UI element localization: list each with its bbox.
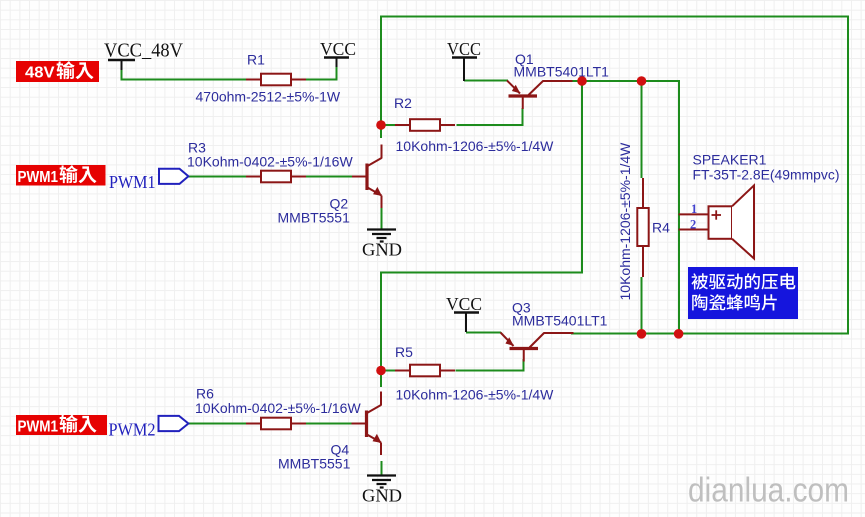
svg-text:10Kohm-0402-±5%-1/16W: 10Kohm-0402-±5%-1/16W bbox=[195, 400, 361, 416]
junction dot 5 bbox=[637, 329, 647, 339]
svg-text:GND: GND bbox=[362, 486, 402, 506]
svg-text:MMBT5401LT1: MMBT5401LT1 bbox=[512, 313, 608, 329]
resistor R6 bbox=[246, 423, 261, 425]
callout box 48V输入 bbox=[16, 61, 99, 82]
transistor Q1 (PNP) bbox=[507, 81, 520, 94]
wire: PWM2 port to R6 bbox=[188, 423, 247, 425]
wire: VCC to Q3 emitter bbox=[466, 332, 501, 334]
ground symbol GND (Q4) bbox=[367, 474, 396, 476]
resistor R1 bbox=[246, 79, 261, 81]
wire: R3 to Q2 base bbox=[304, 176, 353, 178]
junction dot 6 bbox=[674, 329, 684, 339]
svg-text:10Kohm-0402-±5%-1/16W: 10Kohm-0402-±5%-1/16W bbox=[187, 154, 353, 170]
transistor Q4 (NPN) bbox=[352, 423, 367, 425]
resistor R2 bbox=[395, 124, 410, 126]
callout box PWM1输入 (top) bbox=[16, 165, 106, 186]
wire: vertical from top rail down to node at R2 row bbox=[380, 17, 382, 127]
svg-text:MMBT5551: MMBT5551 bbox=[278, 210, 351, 226]
svg-text:GND: GND bbox=[362, 240, 402, 260]
resistor R5 bbox=[395, 370, 410, 372]
svg-text:PWM1: PWM1 bbox=[109, 172, 156, 192]
transistor Q2 (NPN) bbox=[352, 176, 367, 178]
wire: node at R2 down to Q2 collector bbox=[380, 125, 382, 138]
wire: bottom rail from Q3 collector to right rail bbox=[571, 333, 849, 335]
junction dot 4 bbox=[376, 366, 386, 376]
wire: Q4 emitter to GND bbox=[381, 461, 383, 475]
ground symbol GND (Q2) bbox=[367, 228, 396, 230]
svg-text:MMBT5551: MMBT5551 bbox=[278, 456, 351, 472]
wire: R5 row left segment bbox=[381, 370, 395, 372]
callout box PWM1输入 (bottom) bbox=[16, 415, 107, 435]
wire: right rail vertical bbox=[847, 16, 849, 335]
speaker SPEAKER1 symbol bbox=[679, 213, 709, 215]
wire: R5 right lead to Q3 base bbox=[456, 370, 525, 372]
junction dot 1 bbox=[577, 76, 587, 86]
junction dot 3 bbox=[376, 120, 386, 130]
callout box 被驱动的压电陶瓷蜂鸣片 bbox=[688, 267, 798, 319]
svg-text:10Kohm-1206-±5%-1/4W: 10Kohm-1206-±5%-1/4W bbox=[396, 387, 555, 403]
svg-text:FT-35T-2.8E(49mmpvc): FT-35T-2.8E(49mmpvc) bbox=[693, 167, 840, 183]
wire: VCC to Q1 emitter bbox=[464, 80, 508, 82]
svg-text:470ohm-2512-±5%-1W: 470ohm-2512-±5%-1W bbox=[196, 89, 341, 105]
wire: PWM1 port to R3 bbox=[188, 176, 247, 178]
resistor R4 (vertical) bbox=[642, 178, 644, 209]
svg-text:dianlua.com: dianlua.com bbox=[688, 472, 849, 510]
svg-text:VCC: VCC bbox=[447, 39, 481, 59]
svg-text:R2: R2 bbox=[394, 95, 412, 111]
wire: R4 column lower bbox=[641, 277, 643, 335]
svg-text:R1: R1 bbox=[247, 52, 265, 68]
resistor R3 bbox=[246, 176, 261, 178]
wire: node B down to Q4 collector bbox=[380, 371, 382, 388]
svg-text:R5: R5 bbox=[395, 344, 413, 360]
wire: top rail horizontal bbox=[380, 16, 848, 18]
svg-text:VCC: VCC bbox=[320, 39, 356, 59]
wire: R4 column upper bbox=[641, 81, 643, 178]
wire: node A down, left, down to node B bbox=[381, 81, 582, 371]
svg-text:1: 1 bbox=[691, 202, 697, 216]
svg-text:VCC: VCC bbox=[446, 294, 482, 314]
wire: R6 to Q4 base bbox=[304, 423, 353, 425]
svg-text:PWM1: PWM1 bbox=[18, 169, 59, 186]
wire: R2 right lead to Q1 base bbox=[457, 124, 524, 126]
wire: Q1 collector run to speaker column bbox=[571, 80, 679, 82]
svg-text:VCC_48V: VCC_48V bbox=[104, 40, 184, 62]
wire: R1 right lead to VCC stub bbox=[304, 79, 337, 81]
svg-text:10Kohm-1206-±5%-1/4W: 10Kohm-1206-±5%-1/4W bbox=[617, 142, 633, 301]
junction dot 2 bbox=[637, 76, 647, 86]
svg-text:R4: R4 bbox=[652, 220, 670, 236]
svg-text:PWM2: PWM2 bbox=[109, 420, 156, 440]
wire: Q2 emitter to GND bbox=[381, 207, 383, 229]
svg-text:48V: 48V bbox=[25, 65, 55, 82]
svg-text:10Kohm-1206-±5%-1/4W: 10Kohm-1206-±5%-1/4W bbox=[396, 138, 555, 154]
wire: VCC_48V stem lower segment bbox=[121, 70, 123, 81]
svg-text:SPEAKER1: SPEAKER1 bbox=[693, 152, 767, 168]
transistor Q3 (PNP) bbox=[501, 333, 514, 347]
svg-text:2: 2 bbox=[690, 218, 696, 232]
svg-text:MMBT5401LT1: MMBT5401LT1 bbox=[514, 64, 610, 80]
svg-text:PWM1: PWM1 bbox=[18, 419, 59, 436]
wire: speaker column vertical bbox=[678, 80, 680, 335]
wire: R2 row left segment bbox=[381, 124, 395, 126]
wire: Q3 collector to node C bbox=[571, 333, 642, 335]
